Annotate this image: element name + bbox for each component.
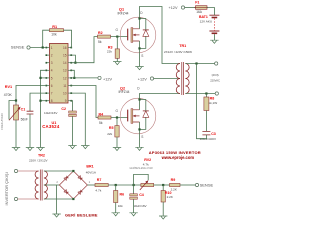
ground (pin10) (81, 146, 89, 149)
wire R5 to ground (116, 137, 118, 147)
svg-text:16: 16 (63, 46, 67, 50)
wire R3 to ground (116, 58, 118, 61)
ground (left bus) (36, 148, 44, 151)
wire C2 to ground (72, 116, 74, 145)
svg-text:2.2K: 2.2K (167, 195, 174, 199)
diode BR1 top-left (64, 176, 69, 181)
svg-text:16A: 16A (196, 10, 203, 14)
junction (39, 77, 41, 79)
terminal (181, 6, 184, 9)
svg-text:5k: 5k (98, 40, 102, 44)
svg-text:R2: R2 (98, 31, 103, 35)
svg-text:TR1: TR1 (179, 44, 186, 48)
svg-text:www.eproje.com: www.eproje.com (161, 155, 195, 160)
transistor Q1 IRFZ44 (120, 17, 156, 53)
svg-text:2: 2 (51, 54, 53, 58)
svg-text:220VAC: 220VAC (210, 78, 220, 82)
wire pin12 to +12V terminal (71, 77, 98, 79)
wire Q2 source to ground (139, 134, 141, 147)
wire pin5 to bus (41, 77, 47, 79)
transistor Q2 IRFZ44 (120, 98, 156, 134)
wire C3 bottom loop to secondary top net (197, 64, 207, 139)
wire RV1 to ground (15, 120, 17, 147)
pin 11 stub (68, 85, 71, 87)
junction (162, 184, 164, 186)
ground (R3) (113, 62, 121, 65)
svg-text:FREK.AYARI: FREK.AYARI (0, 113, 4, 129)
junction (138, 128, 140, 130)
wire R9 to SENSE terminal (180, 184, 195, 186)
ground (RV1) (12, 148, 20, 151)
wire TR2 center tap to bridge left (44, 184, 60, 186)
wire SENSE to pin 1 (30, 47, 46, 49)
svg-text:CA3524: CA3524 (42, 124, 60, 129)
svg-text:8: 8 (51, 99, 53, 103)
ground (battery) (210, 40, 218, 43)
wire bridge to R7 (87, 184, 95, 186)
wire battery to ground (213, 34, 215, 40)
svg-text:IRFZ44: IRFZ44 (119, 90, 130, 94)
svg-text:TR2: TR2 (38, 154, 45, 158)
svg-text:S: S (141, 54, 143, 58)
pin 6 stub (47, 85, 50, 87)
svg-text:1: 1 (89, 180, 91, 184)
wire TR1 secondary top to output terminal (185, 63, 214, 65)
wire C1 to ground (29, 114, 31, 147)
pin 10 stub (68, 92, 71, 94)
resistor R5 22k (gate pulldown Q2) (116, 118, 118, 126)
svg-text:RV1: RV1 (5, 85, 12, 89)
svg-text:7: 7 (51, 92, 53, 96)
pin 3 stub (47, 62, 50, 64)
wire terminal A to TR2 primary (18, 170, 39, 172)
junction (205, 92, 207, 94)
wire R2 to Q1 gate (111, 36, 128, 38)
svg-text:4: 4 (51, 69, 53, 73)
terminal (150, 77, 153, 80)
junction (72, 198, 74, 200)
svg-text:SENSE: SENSE (11, 45, 25, 50)
pin 8 stub (47, 100, 50, 102)
resistor R9 2.2K (170, 183, 181, 186)
svg-text:GERİ BESLEME: GERİ BESLEME (65, 213, 98, 218)
resistor R6 10k to ground (115, 185, 117, 191)
wire TR2 secondary top to bridge (44, 170, 74, 172)
svg-text:15: 15 (63, 54, 67, 58)
capacitor C4 10uF/16V (133, 185, 135, 194)
svg-text:5: 5 (51, 76, 53, 80)
svg-text:C4: C4 (139, 193, 144, 197)
svg-text:2.2K: 2.2K (171, 187, 178, 191)
op-amp U1 CA3524 PWM controller IC body (50, 44, 69, 104)
ground (C4) (129, 213, 137, 216)
svg-text:C3: C3 (211, 132, 216, 136)
svg-text:3: 3 (51, 61, 53, 65)
pin 5 stub (47, 77, 50, 79)
svg-text:9: 9 (65, 99, 67, 103)
svg-text:1k,1W: 1k,1W (208, 101, 217, 105)
wire pin15 jog (71, 55, 75, 63)
wire R1 left to SENSE line (43, 30, 50, 47)
resistor R7 4.7k (95, 183, 108, 186)
svg-text:10uF/16V: 10uF/16V (133, 204, 147, 208)
svg-text:12: 12 (63, 76, 67, 80)
wire pin6 to RV1 (16, 86, 47, 106)
diode BR1 bottom-left (64, 190, 69, 195)
pin 12 stub (68, 77, 71, 79)
resistor R1 10k (pin1 to pin16) (50, 29, 64, 32)
svg-text:F1: F1 (195, 0, 199, 4)
svg-text:6: 6 (51, 84, 53, 88)
wire Q2 drain to TR1 primary bottom (140, 94, 181, 99)
junction (138, 17, 140, 19)
fuse F1 16A (196, 6, 208, 10)
svg-text:4.7k: 4.7k (95, 188, 101, 192)
svg-text:56nF: 56nF (21, 118, 28, 122)
svg-text:10: 10 (63, 92, 67, 96)
svg-text:10k: 10k (51, 33, 57, 37)
wire pin9 to C2 (71, 101, 73, 111)
ground (C1) (26, 148, 34, 151)
wire pin11 to R4 (71, 86, 98, 118)
pin 15 stub (68, 54, 71, 56)
svg-text:4.7k: 4.7k (143, 163, 149, 167)
terminal (215, 92, 218, 95)
resistor R8 1k 1W (snubber) (205, 94, 207, 98)
battery BAT1 12V AKU (209, 15, 219, 31)
wire Q1 drain loop to TR1 primary top (140, 7, 181, 64)
terminal (195, 183, 198, 186)
resistor R4 5k (gate Q2) (98, 116, 111, 119)
svg-text:R4: R4 (99, 112, 104, 116)
pin 16 stub (68, 47, 71, 49)
resistor R2 5k (gate Q1) (98, 35, 111, 38)
svg-text:14: 14 (63, 61, 67, 65)
svg-text:INVERTOR ÇIKIŞI: INVERTOR ÇIKIŞI (4, 172, 9, 205)
wire R8 to C3 (205, 111, 207, 132)
junction (72, 170, 74, 172)
svg-text:470K: 470K (4, 93, 13, 97)
wire terminal B to TR2 primary (18, 198, 39, 200)
svg-text:GERİBESLEME AYARI: GERİBESLEME AYARI (129, 167, 153, 170)
svg-text:2X12V / 220V /150W: 2X12V / 220V /150W (164, 50, 192, 54)
wire pin13 down to pin12 (71, 70, 74, 78)
svg-text:C1: C1 (21, 107, 26, 111)
potentiometer RV2 4.7k inline (141, 183, 154, 186)
svg-text:1: 1 (51, 46, 53, 50)
wire R7 to RV2 (108, 184, 141, 186)
svg-text:R6: R6 (120, 193, 125, 197)
wire RV2 wiper loop (134, 174, 149, 185)
terminal (14, 169, 17, 172)
terminal (98, 76, 101, 79)
junction (116, 36, 118, 38)
resistor R3 22k (gate pulldown Q1) (116, 37, 118, 49)
ground (R10) (159, 216, 167, 219)
capacitor C3 100nF/400V (202, 131, 210, 135)
wire pin8 to bus (41, 100, 47, 102)
wire RV2 to R9 (154, 184, 170, 186)
terminal (27, 46, 30, 49)
svg-text:R5: R5 (109, 126, 114, 130)
wire pin14 to R2 (71, 37, 98, 63)
wire pin10 to ground (71, 93, 85, 145)
ground (C2) (68, 146, 76, 149)
svg-text:11: 11 (63, 84, 67, 88)
junction (195, 62, 197, 64)
svg-text:G: G (116, 28, 119, 32)
wire Q1 source to ground (139, 53, 141, 67)
potentiometer RV1 470K (14, 105, 19, 120)
wire pin7 to C1 (30, 93, 47, 111)
junction (138, 47, 140, 49)
svg-text:R7: R7 (97, 178, 102, 182)
svg-text:12V AKU: 12V AKU (200, 19, 213, 23)
svg-text:13: 13 (63, 69, 67, 73)
wire pin4 to ground bus (41, 70, 47, 147)
svg-text:22k: 22k (107, 50, 112, 54)
ground (Q1 source) (135, 67, 143, 70)
svg-text:22k: 22k (107, 132, 112, 136)
resistor R10 2.2K to ground (162, 185, 164, 191)
svg-text:BR1: BR1 (86, 165, 93, 169)
svg-text:ÇIKIŞ: ÇIKIŞ (212, 73, 219, 77)
capacitor C2 10uF/16V (69, 111, 77, 113)
svg-text:R1: R1 (52, 25, 57, 29)
ground (R5) (113, 148, 121, 151)
junction (73, 77, 75, 79)
ground (Q2 source) (135, 147, 143, 150)
junction (74, 62, 76, 64)
svg-text:40V/1A: 40V/1A (86, 171, 97, 175)
wire R1 right to pin 16 (64, 30, 72, 47)
wire RV1 wiper loop (9, 101, 16, 120)
pin 13 stub (68, 69, 71, 71)
pin 14 stub (68, 62, 71, 64)
capacitor C1 56nF (27, 111, 34, 114)
svg-text:+12V: +12V (103, 77, 112, 81)
junction (42, 46, 44, 48)
wire fuse to battery (207, 8, 214, 16)
svg-text:D: D (137, 86, 140, 90)
pin 2 stub (47, 54, 50, 56)
terminal (14, 197, 17, 200)
svg-text:D: D (140, 11, 143, 15)
junction (116, 116, 118, 118)
junction (115, 184, 117, 186)
ground (R6) (112, 213, 120, 216)
svg-text:C2: C2 (61, 107, 66, 111)
junction (133, 184, 135, 186)
svg-text:5k: 5k (99, 121, 103, 125)
terminal (215, 62, 218, 65)
diode BR1 top-right (78, 176, 83, 181)
wire TR1 secondary bottom to output terminal 2 (185, 93, 215, 95)
ground (TR2 center tap) (52, 214, 60, 217)
svg-text:220V / 2X12V: 220V / 2X12V (29, 158, 48, 162)
svg-text:+12V: +12V (169, 6, 178, 10)
bridge rectifier BR1 40V/1A (59, 171, 87, 199)
svg-text:S: S (141, 135, 143, 139)
svg-text:IRFZ44: IRFZ44 (118, 11, 129, 15)
svg-text:SENSE: SENSE (200, 183, 214, 188)
pin 9 stub (68, 100, 71, 102)
junction (39, 100, 41, 102)
svg-text:G: G (116, 109, 119, 113)
pin 7 stub (47, 92, 50, 94)
svg-text:10k: 10k (118, 204, 123, 208)
wire R4 to Q2 gate (111, 117, 128, 119)
svg-text:+12V: +12V (138, 77, 147, 81)
wire +12V to TR1 center tap (154, 78, 180, 80)
wire TR2 secondary bottom to bridge (44, 198, 74, 200)
diode BR1 bottom-right (78, 190, 83, 195)
svg-text:10uF/16V: 10uF/16V (44, 111, 58, 115)
svg-text:2: 2 (56, 180, 58, 184)
wire center tap to ground (56, 185, 58, 214)
junction (15, 99, 17, 101)
wire terminal to fuse (185, 7, 196, 9)
junction (138, 98, 140, 100)
svg-text:R9: R9 (171, 178, 176, 182)
pin 4 stub (47, 69, 50, 71)
pin 1 stub (47, 47, 50, 49)
